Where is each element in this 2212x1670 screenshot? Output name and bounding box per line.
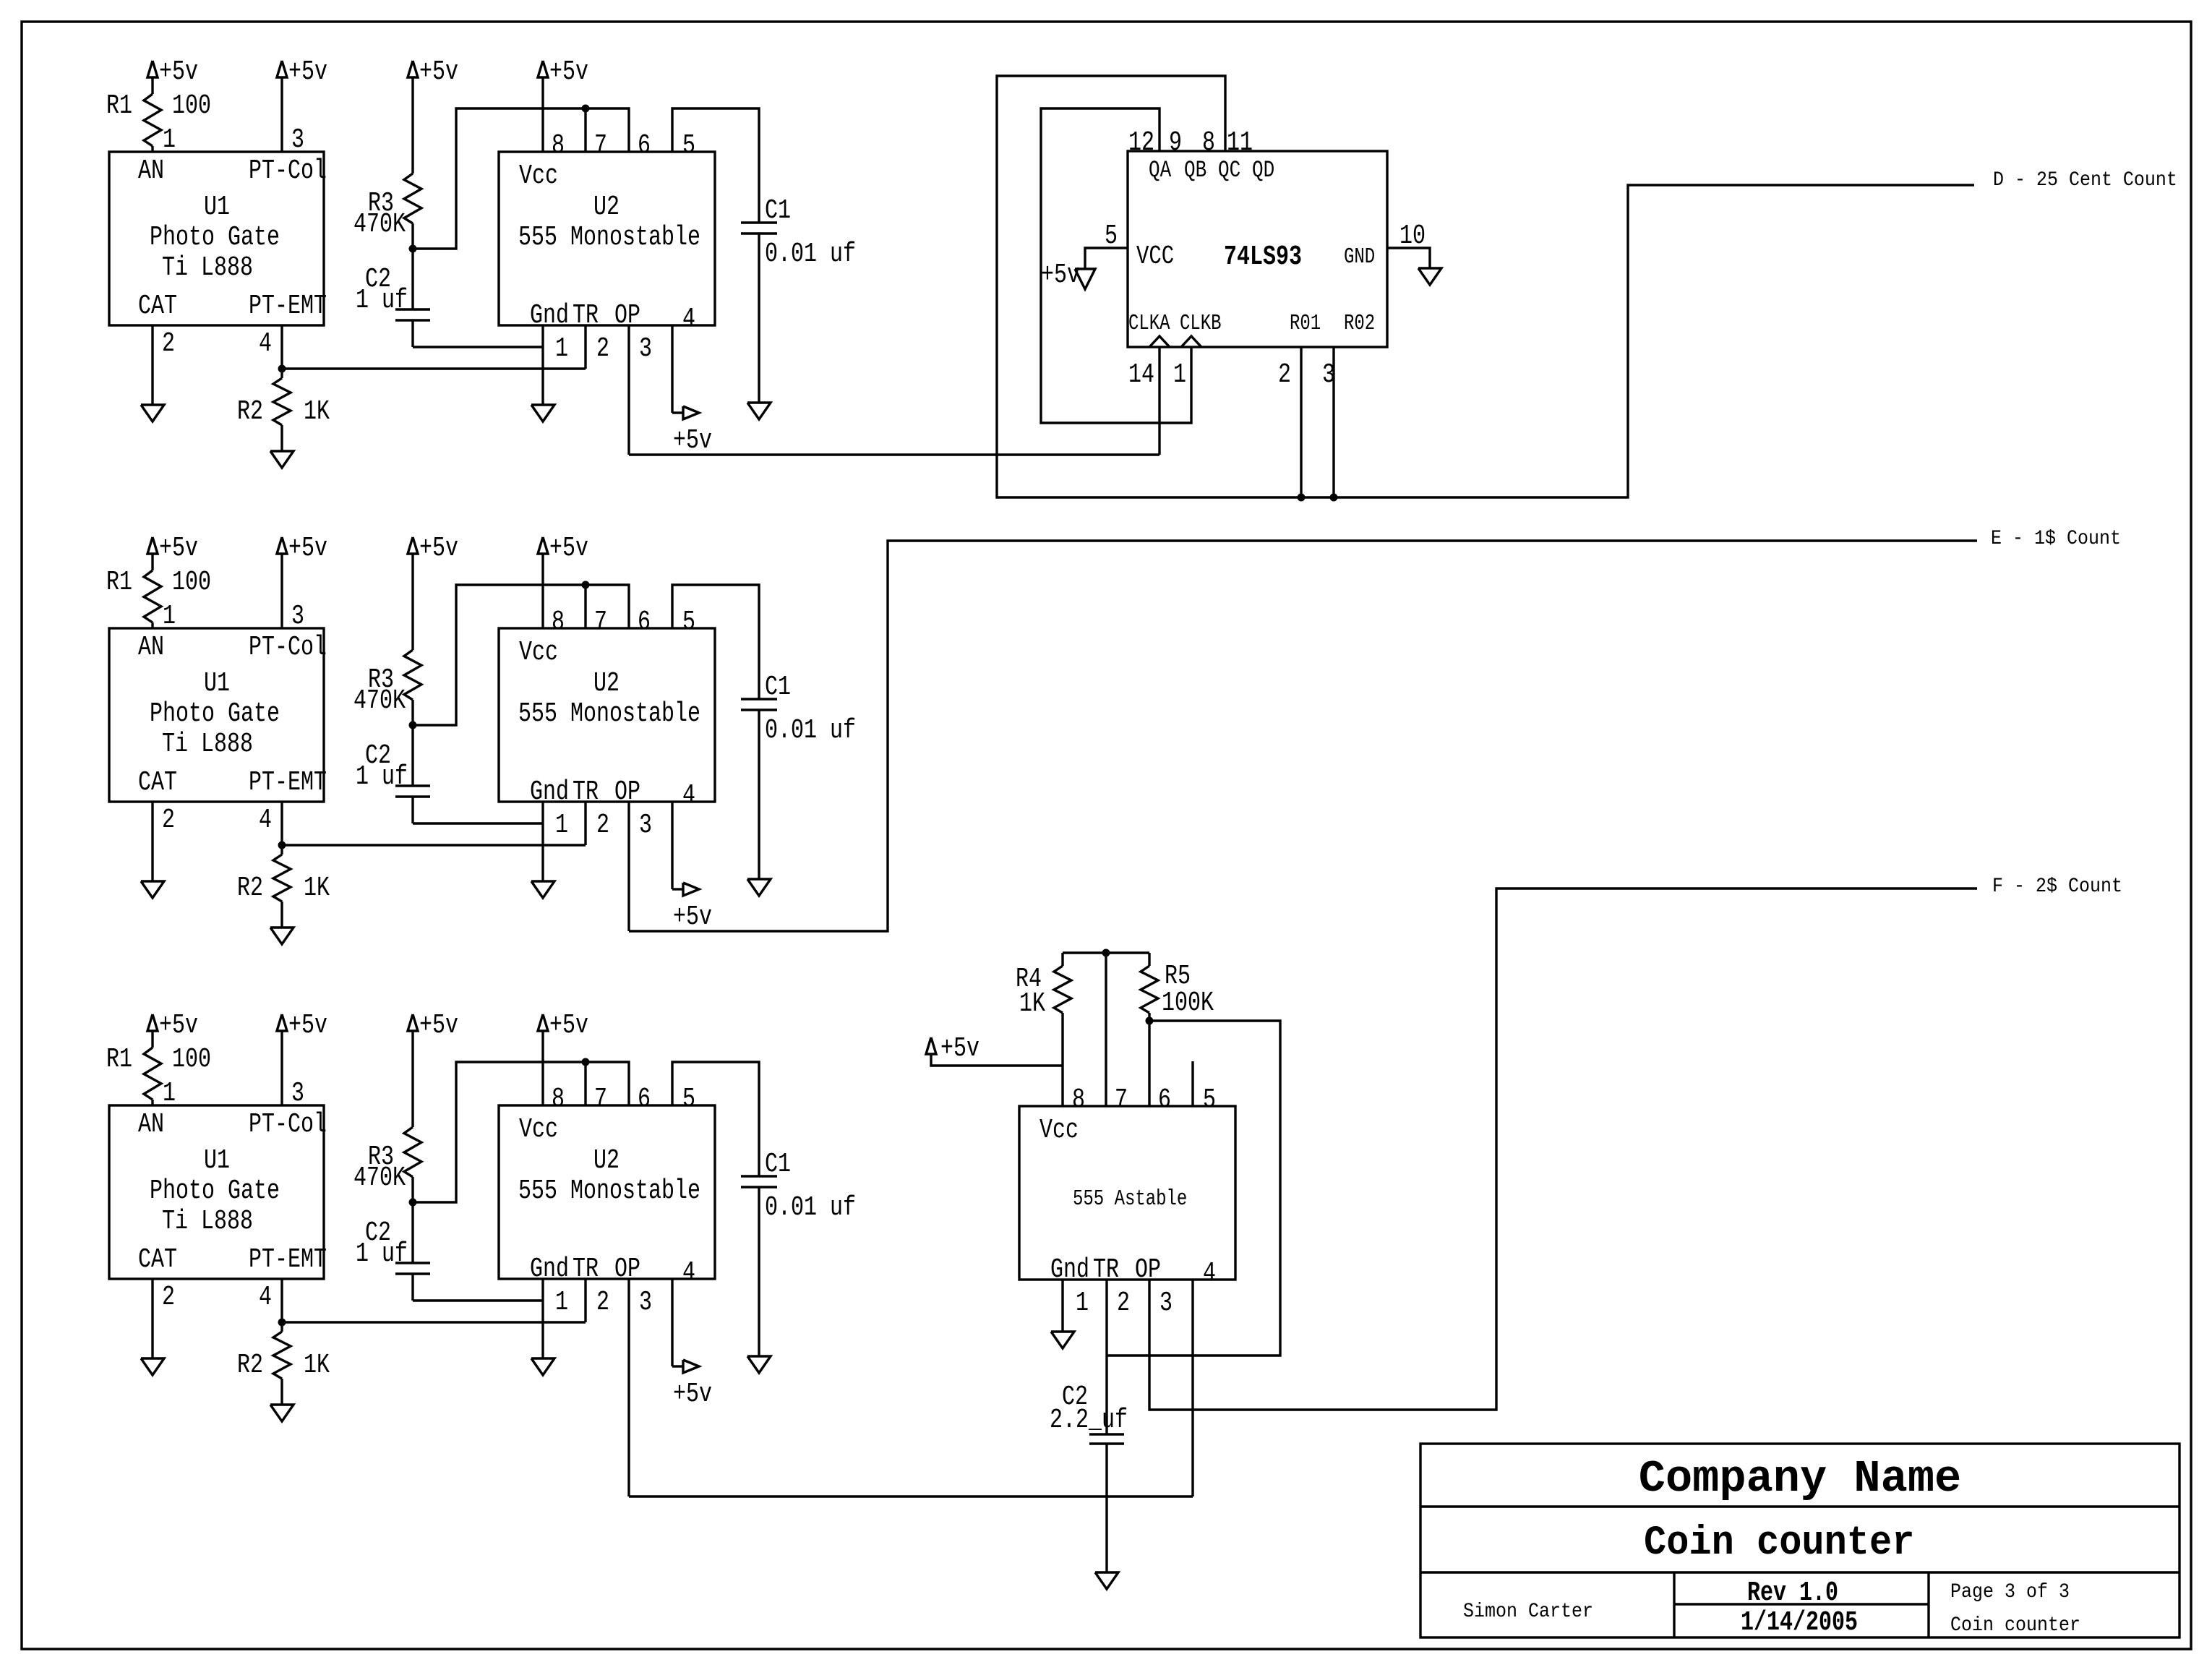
photo gate U1 (ch1) [109, 152, 324, 325]
svg-text:Company Name: Company Name [1639, 1453, 1961, 1504]
svg-text:Photo Gate: Photo Gate [150, 1176, 280, 1207]
wire ch1 timing node to U2 pins 6,7 [413, 108, 629, 249]
svg-text:QC: QC [1218, 156, 1240, 184]
svg-text:+5v: +5v [419, 1011, 458, 1041]
node ch3 pin7 tap [582, 1058, 590, 1066]
svg-text:2.2_uf: 2.2_uf [1050, 1405, 1128, 1436]
capacitor C1 0.01 uf (ch2) [741, 698, 777, 700]
clock wedge CLKA (pin 14) [1149, 336, 1170, 347]
svg-text:0.01 uf: 0.01 uf [765, 239, 856, 270]
svg-text:8: 8 [1072, 1085, 1085, 1116]
wire ch2 output to E net [629, 541, 1977, 931]
wire astable pin 5 stub (n/c) [1191, 1061, 1193, 1106]
resistor R2 1K (ch1) [280, 369, 283, 378]
resistor R3 470K (ch1) [404, 174, 421, 223]
title block rev/date divider [1674, 1603, 1929, 1605]
node ch1 pin7 tap [582, 105, 590, 113]
svg-text:+5v: +5v [288, 57, 327, 87]
ground (C1 ch2) [747, 879, 771, 896]
svg-text:4: 4 [259, 805, 272, 836]
svg-text:7: 7 [594, 607, 607, 638]
svg-text:Gnd: Gnd [530, 777, 569, 808]
wire 74LS93 pin 10 GND [1387, 248, 1430, 268]
svg-text:1K: 1K [304, 873, 330, 904]
svg-text:2: 2 [596, 810, 609, 841]
svg-text:Simon Carter: Simon Carter [1463, 1600, 1593, 1622]
svg-text:Vcc: Vcc [519, 1115, 558, 1145]
ground (R2 ch2) [270, 928, 293, 944]
svg-text:Ti L888: Ti L888 [162, 1207, 253, 1237]
wire ch3 R1 to U1 pin 1 [151, 1100, 153, 1105]
resistor R4 1K [1061, 953, 1063, 966]
svg-text:CLKB: CLKB [1180, 312, 1222, 336]
wire ch1 C2 to U2 pin 1 [411, 320, 413, 347]
wire ch3 pin 7 stub [584, 1062, 586, 1105]
+5v supply (U1 pin3 ch1) [277, 61, 287, 77]
wire astable +5v feed [931, 1054, 1063, 1066]
svg-text:R2: R2 [237, 397, 263, 427]
wire ch2 R3 to timing node [411, 700, 413, 725]
svg-text:+5v: +5v [159, 534, 198, 564]
svg-text:8: 8 [552, 1084, 565, 1115]
svg-text:1 uf: 1 uf [356, 762, 408, 792]
svg-text:6: 6 [638, 1084, 651, 1115]
+5v supply (U1 pin3 ch2) [277, 537, 287, 554]
svg-text:TR: TR [573, 1254, 599, 1285]
ground (C1 ch1) [747, 403, 771, 419]
svg-text:4: 4 [1203, 1259, 1216, 1289]
svg-text:U2: U2 [593, 192, 620, 223]
svg-text:+5v: +5v [288, 1011, 327, 1041]
capacitor C2 1 uf (ch1) [411, 249, 413, 309]
svg-text:OP: OP [614, 1254, 640, 1285]
resistor R3 470K (ch2) [404, 650, 421, 700]
svg-text:8: 8 [552, 131, 565, 161]
svg-text:GND: GND [1344, 245, 1375, 270]
svg-text:AN: AN [138, 633, 164, 663]
wire ch2 R1 to U1 pin 1 [151, 622, 153, 628]
svg-text:+5v: +5v [673, 1379, 712, 1410]
wire QD (pin 11) output loop [997, 76, 1974, 497]
svg-text:F - 2$ Count: F - 2$ Count [1992, 875, 2122, 897]
svg-text:TR: TR [573, 301, 599, 331]
wire astable pin 2 stub [1105, 1280, 1107, 1356]
wire ch2 U2 pin 4 (reset) to +5v [671, 802, 673, 889]
svg-text:14: 14 [1128, 360, 1154, 390]
wire ch2 timing node to U2 pins 6,7 [413, 585, 629, 725]
wire astable C2 to ground [1105, 1444, 1107, 1572]
svg-text:C1: C1 [765, 196, 791, 226]
svg-text:6: 6 [638, 607, 651, 638]
svg-text:OP: OP [614, 301, 640, 331]
svg-text:QD: QD [1252, 156, 1274, 184]
wire QA (pin 12) to CLKB (pin 1) feedback loop [1041, 108, 1191, 423]
title block divider 1 [1420, 1505, 2179, 1507]
node ch2 PT-EMT junction [278, 842, 286, 849]
wire ch3 U1 pin 2 to ground [151, 1279, 153, 1358]
svg-text:4: 4 [259, 1283, 272, 1313]
node ch2 R3/C2 timing junction [409, 721, 417, 729]
wire ch1 +5v to U2 pin 8 [541, 77, 544, 152]
555 monostable U2 (ch3) [499, 1105, 715, 1279]
svg-text:2: 2 [596, 1288, 609, 1318]
svg-text:2: 2 [1117, 1288, 1130, 1319]
svg-text:R1: R1 [106, 91, 132, 121]
node junction R01/QD net [1298, 494, 1306, 502]
svg-text:+5v: +5v [159, 1011, 198, 1041]
photo gate U1 (ch3) [109, 1105, 324, 1279]
svg-text:5: 5 [682, 131, 695, 161]
wire ch3 timing node to U2 pins 6,7 [413, 1062, 629, 1202]
svg-text:7: 7 [1115, 1085, 1128, 1116]
svg-text:470K: 470K [353, 1163, 406, 1194]
ground (U1 pin2 ch3) [141, 1358, 164, 1375]
wire astable pin 7 stub [1105, 953, 1107, 1106]
title block frame [1420, 1444, 2179, 1637]
wire ch2 +5v to U2 pin 8 [541, 554, 544, 628]
svg-text:+5v: +5v [288, 534, 327, 564]
wire ch1 +5v to R3 [411, 77, 413, 174]
title block column divider 1 [1673, 1572, 1675, 1637]
ground (R2 ch1) [270, 451, 293, 468]
svg-text:PT-Col: PT-Col [249, 156, 327, 187]
wire ch3 C1 to ground [758, 1187, 760, 1356]
wire ch1 U1 pin 2 to ground [151, 325, 153, 405]
+5v supply arrow right (U2 pin4 ch2) [683, 883, 699, 896]
svg-text:PT-Col: PT-Col [249, 633, 327, 663]
svg-text:QB: QB [1184, 156, 1206, 184]
+5v supply (R1 ch3) [147, 1014, 158, 1031]
+5v supply arrow right (U2 pin4 ch1) [683, 406, 699, 419]
title block divider 2 [1420, 1571, 2179, 1573]
svg-text:6: 6 [638, 131, 651, 161]
svg-text:R2: R2 [237, 1350, 263, 1381]
node ch3 R3/C2 timing junction [409, 1199, 417, 1207]
svg-text:Coin counter: Coin counter [1644, 1520, 1914, 1566]
svg-text:555 Monostable: 555 Monostable [518, 699, 700, 729]
wire ch1 R1 to U1 pin 1 [151, 146, 153, 152]
svg-text:Page 3 of 3: Page 3 of 3 [1950, 1580, 2070, 1603]
resistor R1 100 (ch1) [144, 94, 161, 146]
ground (U2 pin1 ch1) [531, 405, 554, 421]
capacitor C2 2.2 uf (astable) [1105, 1356, 1107, 1434]
wire ch2 U2 pin 5 to C1 [672, 585, 759, 699]
svg-text:QA: QA [1149, 156, 1171, 184]
node ch2 pin7 tap [582, 581, 590, 589]
svg-text:1 uf: 1 uf [356, 286, 408, 316]
wire astable pin 1 to ground [1061, 1280, 1063, 1332]
resistor R1 100 (ch2) [144, 570, 161, 622]
svg-text:AN: AN [138, 1110, 164, 1140]
svg-text:+5v: +5v [673, 426, 712, 456]
svg-text:+5v: +5v [549, 57, 588, 87]
wire 74LS93 pin 5 VCC to +5v [1085, 248, 1128, 269]
svg-text:2: 2 [162, 805, 175, 836]
svg-text:PT-Col: PT-Col [249, 1110, 327, 1140]
svg-text:8: 8 [1202, 128, 1215, 158]
svg-text:Coin counter: Coin counter [1950, 1614, 2080, 1636]
ground (74LS93 pin 10) [1418, 268, 1441, 285]
wire ch2 U2 pin 3 output down [627, 802, 630, 931]
svg-text:5: 5 [682, 607, 695, 638]
svg-text:3: 3 [639, 334, 652, 364]
svg-text:4: 4 [259, 329, 272, 359]
svg-text:7: 7 [594, 131, 607, 161]
svg-text:5: 5 [682, 1084, 695, 1115]
wire ch2 C1 to ground [758, 710, 760, 879]
svg-text:Photo Gate: Photo Gate [150, 699, 280, 729]
svg-text:CLKA: CLKA [1128, 312, 1170, 336]
svg-text:555 Monostable: 555 Monostable [518, 1176, 700, 1207]
svg-text:470K: 470K [353, 210, 406, 240]
svg-text:6: 6 [1158, 1085, 1171, 1116]
svg-text:+5v: +5v [673, 902, 712, 933]
svg-text:2: 2 [162, 329, 175, 359]
wire ch2 U1 pin 4 (PT-EMT) down [280, 802, 283, 845]
ground (R2 ch3) [270, 1405, 293, 1421]
+5v supply (R3 ch3) [408, 1014, 418, 1031]
svg-text:1K: 1K [304, 397, 330, 427]
resistor R1 100 (ch3) [144, 1048, 161, 1100]
wire ch1 +5v to R1 [151, 77, 153, 94]
node R5 bottom junction [1146, 1017, 1154, 1025]
wire CLKA (pin 14) to ch1 555 output [1158, 347, 1160, 455]
ground (astable pin 1) [1051, 1332, 1074, 1348]
svg-text:555 Monostable: 555 Monostable [518, 223, 700, 253]
wire ch3 output to astable reset (pin 4) [629, 1495, 1193, 1497]
node R4/R5/pin7 junction [1102, 949, 1110, 957]
svg-text:Gnd: Gnd [530, 301, 569, 331]
svg-text:7: 7 [594, 1084, 607, 1115]
svg-text:Gnd: Gnd [530, 1254, 569, 1285]
svg-text:4: 4 [682, 1258, 695, 1288]
svg-text:+5v: +5v [549, 534, 588, 564]
svg-text:0.01 uf: 0.01 uf [765, 1193, 856, 1223]
ground (U1 pin2 ch1) [141, 405, 164, 421]
+5v supply (U2 Vcc ch2) [538, 537, 548, 554]
svg-text:1K: 1K [304, 1350, 330, 1381]
svg-text:D - 25 Cent Count: D - 25 Cent Count [1993, 168, 2177, 191]
svg-text:VCC: VCC [1136, 241, 1174, 271]
wire ch3 U1 pin 4 (PT-EMT) down [280, 1279, 283, 1322]
svg-text:100: 100 [172, 91, 211, 121]
wire ch3 U2 pin 5 to C1 [672, 1062, 759, 1176]
svg-text:R1: R1 [106, 568, 132, 598]
wire ch1 U2 pin 1 to ground [541, 325, 544, 405]
+5v supply (astable) [926, 1037, 936, 1054]
wire R02 (pin 3) to QD net [1332, 347, 1334, 497]
svg-text:Ti L888: Ti L888 [162, 729, 253, 760]
wire ch1 pin 7 stub [584, 108, 586, 152]
capacitor C1 0.01 uf (ch1) [741, 221, 777, 223]
svg-text:R02: R02 [1344, 312, 1375, 336]
svg-text:Ti L888: Ti L888 [162, 253, 253, 283]
resistor R2 1K (ch3) [280, 1322, 283, 1332]
+5v supply (U2 Vcc ch3) [538, 1014, 548, 1031]
wire ch1 R3 to timing node [411, 223, 413, 249]
wire ch3 U2 pin 4 (reset) to +5v [671, 1279, 673, 1366]
wire R4 to astable pin 8 [1061, 1013, 1063, 1106]
title block column divider 2 [1927, 1572, 1929, 1637]
svg-text:1 uf: 1 uf [356, 1239, 408, 1269]
wire ch3 U2 pin 1 to ground [541, 1279, 544, 1358]
svg-text:R2: R2 [237, 873, 263, 904]
svg-text:+5v: +5v [1041, 260, 1080, 291]
+5v supply (R1 ch2) [147, 537, 158, 554]
svg-text:Gnd: Gnd [1050, 1255, 1089, 1285]
resistor R5 100K [1148, 953, 1150, 966]
svg-text:AN: AN [138, 156, 164, 187]
node junction R02/QD net [1330, 494, 1338, 502]
+5v supply (U1 pin3 ch3) [277, 1014, 287, 1031]
+5v supply (R3 ch2) [408, 537, 418, 554]
svg-text:R01: R01 [1290, 312, 1321, 336]
555 monostable U2 (ch1) [499, 152, 715, 325]
ground (C1 ch3) [747, 1356, 771, 1373]
svg-text:PT-EMT: PT-EMT [249, 768, 327, 798]
svg-text:PT-EMT: PT-EMT [249, 1245, 327, 1275]
svg-text:2: 2 [596, 334, 609, 364]
ground (U2 pin1 ch2) [531, 881, 554, 898]
wire ch1 +5v to U1 pin 3 [280, 77, 283, 152]
capacitor C2 1 uf (ch2) [411, 725, 413, 786]
svg-text:Vcc: Vcc [519, 638, 558, 668]
svg-text:Photo Gate: Photo Gate [150, 223, 280, 253]
svg-text:PT-EMT: PT-EMT [249, 291, 327, 322]
wire R5 to astable pin 6 [1148, 1013, 1150, 1106]
svg-text:2: 2 [1278, 360, 1291, 390]
svg-text:Vcc: Vcc [519, 161, 558, 192]
svg-text:3: 3 [1159, 1288, 1173, 1319]
svg-text:OP: OP [1135, 1255, 1161, 1285]
svg-text:U1: U1 [204, 192, 230, 223]
svg-text:Vcc: Vcc [1039, 1116, 1079, 1146]
svg-text:Rev 1.0: Rev 1.0 [1747, 1578, 1838, 1609]
resistor R3 470K (ch3) [404, 1127, 421, 1177]
svg-text:11: 11 [1227, 128, 1253, 158]
wire ch3 R3 to timing node [411, 1177, 413, 1202]
svg-text:100: 100 [172, 1045, 211, 1075]
wire ch1 C1 to ground [758, 234, 760, 403]
svg-text:3: 3 [639, 810, 652, 841]
svg-text:4: 4 [682, 781, 695, 811]
wire ch3 +5v to R3 [411, 1031, 413, 1127]
svg-text:CAT: CAT [138, 768, 177, 798]
svg-text:TR: TR [573, 777, 599, 808]
svg-text:1: 1 [555, 334, 568, 364]
wire R5 bottom to TR (pin 2) feedback [1107, 1021, 1280, 1356]
capacitor C2 1 uf (ch3) [411, 1202, 413, 1263]
svg-text:CAT: CAT [138, 1245, 177, 1275]
555 monostable U2 (ch2) [499, 628, 715, 802]
svg-text:C1: C1 [765, 672, 791, 703]
wire ch1 U2 pin 3 output [627, 325, 630, 455]
+5v supply (R3 ch1) [408, 61, 418, 77]
svg-text:U1: U1 [204, 1146, 230, 1176]
ground (U2 pin1 ch3) [531, 1358, 554, 1375]
wire ch2 PT-EMT to U2 pin 2 (TR) [282, 844, 586, 846]
svg-text:1: 1 [555, 1288, 568, 1318]
wire ch1 output to 74LS93 CLKA [629, 453, 1159, 455]
svg-text:+5v: +5v [419, 534, 458, 564]
resistor R2 1K (ch2) [280, 845, 283, 855]
svg-text:+5v: +5v [549, 1011, 588, 1041]
svg-text:100: 100 [172, 568, 211, 598]
wire ch2 +5v to R1 [151, 554, 153, 570]
wire ch3 +5v to R1 [151, 1031, 153, 1048]
capacitor C1 0.01 uf (ch3) [741, 1175, 777, 1177]
node ch3 PT-EMT junction [278, 1319, 286, 1327]
wire ch3 C2 to U2 pin 1 [411, 1274, 413, 1301]
svg-text:12: 12 [1128, 128, 1154, 158]
node ch1 R3/C2 timing junction [409, 245, 417, 253]
+5v supply (U2 Vcc ch1) [538, 61, 548, 77]
svg-text:OP: OP [614, 777, 640, 808]
wire ch3 U2 pin 3 output down [627, 1279, 630, 1496]
svg-text:E - 1$ Count: E - 1$ Count [1991, 527, 2121, 549]
wire ch3 +5v to U1 pin 3 [280, 1031, 283, 1105]
555 astable U3 [1019, 1106, 1235, 1280]
svg-text:C1: C1 [765, 1149, 791, 1180]
svg-text:R1: R1 [106, 1045, 132, 1075]
svg-text:74LS93: 74LS93 [1224, 242, 1302, 273]
clock wedge CLKB (pin 1) [1181, 336, 1201, 347]
wire ch2 U1 pin 2 to ground [151, 802, 153, 881]
svg-text:1: 1 [1173, 360, 1186, 390]
wire ch2 +5v to U1 pin 3 [280, 554, 283, 628]
svg-text:555 Astable: 555 Astable [1073, 1187, 1187, 1212]
wire ch3 +5v to U2 pin 8 [541, 1031, 544, 1105]
svg-text:1/14/2005: 1/14/2005 [1741, 1608, 1858, 1638]
counter IC 74LS93 [1128, 151, 1387, 347]
wire ch1 U2 pin 5 to C1 [672, 108, 759, 223]
wire ch1 U2 pin 4 (reset) to +5v [671, 325, 673, 413]
ground (U1 pin2 ch2) [141, 881, 164, 898]
wire R01 (pin 2) to QD net [1300, 347, 1302, 497]
wire ch1 PT-EMT to U2 pin 2 (TR) [282, 367, 586, 369]
svg-text:0.01 uf: 0.01 uf [765, 716, 856, 746]
svg-text:CAT: CAT [138, 291, 177, 322]
svg-text:470K: 470K [353, 686, 406, 716]
photo gate U1 (ch2) [109, 628, 324, 802]
svg-text:1K: 1K [1019, 989, 1045, 1019]
wire ch2 U2 pin 1 to ground [541, 802, 544, 881]
wire astable pin 3 output to F net [1149, 888, 1977, 1410]
svg-text:9: 9 [1169, 128, 1182, 158]
svg-text:R5: R5 [1165, 962, 1191, 992]
wire ch3 PT-EMT to U2 pin 2 (TR) [282, 1321, 586, 1323]
node ch1 PT-EMT junction [278, 365, 286, 373]
+5v supply arrow right (U2 pin4 ch3) [683, 1360, 699, 1373]
svg-text:U1: U1 [204, 669, 230, 699]
+5v supply arrow down (74LS93 pin 5) [1075, 269, 1095, 289]
svg-text:+5v: +5v [159, 57, 198, 87]
svg-text:4: 4 [682, 304, 695, 335]
svg-text:+5v: +5v [419, 57, 458, 87]
svg-text:1: 1 [555, 810, 568, 841]
wire ch2 C2 to U2 pin 1 [411, 797, 413, 823]
svg-text:1: 1 [1076, 1288, 1089, 1319]
ground (astable C2) [1095, 1572, 1118, 1589]
svg-text:8: 8 [552, 607, 565, 638]
wire ch2 pin 7 stub [584, 585, 586, 628]
svg-text:5: 5 [1203, 1085, 1216, 1116]
wire ch2 +5v to R3 [411, 554, 413, 650]
wire astable pin 4 down to ch3 output net [1191, 1280, 1193, 1496]
wire ch1 U1 pin 4 (PT-EMT) down [280, 325, 283, 369]
wire R4/R5 top link [1063, 951, 1149, 954]
svg-text:3: 3 [639, 1288, 652, 1318]
